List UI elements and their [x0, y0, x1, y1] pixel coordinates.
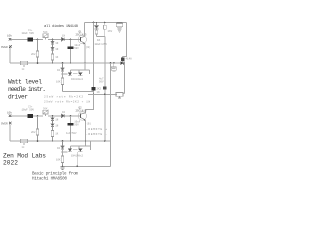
svg-text:-REMOTE +: -REMOTE + [86, 128, 107, 131]
svg-text:1uF/50V: 1uF/50V [66, 132, 77, 135]
svg-text:2SC1815: 2SC1815 [76, 34, 87, 37]
svg-text:1N: 1N [55, 48, 59, 51]
svg-text:16V: 16V [108, 30, 113, 33]
capacitor C3 input electrolytic [28, 114, 34, 118]
svg-text:driver: driver [8, 94, 28, 101]
svg-text:2K2: 2K2 [31, 131, 36, 134]
terminal IN R [9, 115, 11, 117]
wire bottom rail lower channel [10, 140, 111, 142]
svg-text:OVER: OVER [1, 46, 8, 49]
svg-text:50V: 50V [74, 124, 79, 127]
svg-text:10K: 10K [56, 81, 61, 84]
wire Q1 emitter down [84, 44, 86, 63]
svg-text:C1+: C1+ [28, 29, 33, 32]
svg-text:C3+: C3+ [28, 106, 33, 109]
svg-text:1k: 1k [22, 68, 26, 71]
svg-text:50V: 50V [74, 47, 79, 50]
svg-text:2022: 2022 [3, 160, 18, 167]
diode D13 on supply column [103, 86, 106, 89]
diode D14 series signal [62, 114, 65, 117]
diode D10 bridge right [78, 73, 82, 76]
wire C1 to node [33, 38, 43, 40]
wire node to loop lower [63, 149, 68, 156]
wire VR1 to D1 [48, 38, 62, 40]
diode D2 shunt [51, 39, 54, 44]
diode D7 supply feed [121, 58, 125, 61]
resistor box right top column [104, 23, 107, 37]
terminal OVER R [9, 122, 11, 124]
node C4 tap [70, 115, 72, 117]
svg-text:1N: 1N [62, 111, 66, 114]
node ground [62, 165, 64, 167]
svg-text:25mW rate Rb=2K2: 25mW rate Rb=2K2 [44, 95, 83, 99]
svg-text:1N: 1N [62, 34, 66, 37]
wire Q1 collector to rail [84, 23, 86, 37]
diode D9 bridge left [68, 73, 72, 76]
svg-text:(B): (B) [86, 46, 91, 49]
meter rectifier loop lower [71, 141, 91, 150]
svg-text:10k: 10k [7, 110, 12, 114]
diode D1 series signal [62, 38, 65, 41]
node D4 tap [62, 62, 64, 64]
svg-text:1N: 1N [55, 119, 59, 122]
wire joining top columns [97, 36, 105, 38]
resistor R9 [61, 156, 64, 166]
diode D17 below rail [61, 141, 64, 149]
wire lower collector link [85, 110, 87, 114]
diode D5 top column [95, 23, 99, 31]
wire input L [11, 38, 28, 40]
wire feeder column x93.5 [86, 23, 94, 110]
svg-text:4148: 4148 [126, 58, 133, 61]
svg-text:1K: 1K [55, 133, 59, 136]
capacitor C5 electrolytic on rail [116, 23, 122, 33]
capacitor C4 to rail [68, 116, 74, 141]
transistor Q2 [78, 112, 86, 121]
trimmer VR4 on rail [21, 139, 28, 145]
ground symbol [60, 166, 65, 169]
node R1 rail [37, 62, 39, 64]
node R8 rail [52, 140, 54, 142]
trimmer VR3 level [43, 110, 48, 116]
wire node to loop [63, 71, 68, 78]
wire right supply drop [123, 23, 127, 57]
wire return column x110.5 [110, 63, 112, 166]
node loop left [62, 73, 64, 75]
diode D18 bridge left [68, 149, 72, 152]
arrow meter output upper [121, 61, 124, 64]
wire D7 to meter node [122, 57, 124, 64]
node loop left lower [62, 151, 64, 153]
wire meter bus [88, 93, 117, 95]
diode D15 shunt [51, 116, 54, 121]
wire bottom rail upper channel [10, 62, 121, 64]
resistor Rtop under D5 [95, 30, 98, 36]
node shunt tap [52, 39, 54, 41]
svg-text:1N4148x2: 1N4148x2 [71, 78, 84, 81]
diode D16 shunt [51, 121, 54, 127]
svg-text:10uF 50V: 10uF 50V [22, 109, 35, 112]
wire Q2 emitter down [85, 120, 87, 146]
svg-text:1N: 1N [55, 125, 59, 128]
svg-text:10uF 50V: 10uF 50V [22, 32, 35, 35]
wire D14 to base [65, 115, 80, 117]
node D17 tap [62, 140, 64, 142]
wire OVER R down to rail [9, 124, 11, 141]
node R6 rail [37, 140, 39, 142]
svg-text:all diodes 1N4148: all diodes 1N4148 [44, 24, 79, 29]
wire ground return [63, 165, 111, 167]
resistor R8 shunt [51, 127, 54, 141]
svg-text:1N: 1N [57, 147, 61, 150]
trimmer D12 component [111, 63, 116, 72]
resistor R6 input bias [36, 116, 39, 141]
node right col rail [104, 22, 106, 24]
node shunt tap lower [52, 115, 54, 117]
bridge bar marks [68, 74, 83, 76]
bridge bar marks lower [68, 150, 83, 152]
terminal IN L [9, 38, 11, 40]
svg-text:1N: 1N [55, 42, 59, 45]
wire VR5 to supply node [123, 93, 125, 95]
node R3 rail [52, 62, 54, 64]
node supply meter bus [104, 93, 106, 95]
wire emitter into loop [84, 63, 86, 70]
transistor Q1 [78, 35, 86, 44]
svg-text:needle instr.: needle instr. [8, 86, 46, 93]
node emitter rail lower [85, 140, 87, 142]
node tail ground [76, 166, 78, 168]
node feeder meter bus [93, 93, 95, 95]
node C2 tap [70, 38, 72, 40]
meter rectifier loop upper [71, 70, 90, 74]
wire meter node down [124, 64, 126, 94]
node D12 rail [113, 62, 115, 64]
trimmer VR2 on rail [21, 61, 28, 67]
svg-text:10uF/25V: 10uF/25V [95, 42, 108, 46]
capacitor C2 to rail [68, 39, 74, 63]
svg-text:(B): (B) [87, 122, 92, 125]
resistor R4 [61, 78, 64, 92]
svg-text:Zen Mod Labs: Zen Mod Labs [3, 153, 46, 160]
node x110.5 rail [110, 62, 112, 64]
svg-text:Hitachi HMA8500: Hitachi HMA8500 [32, 177, 67, 182]
trimmer VR5 meter cal [116, 92, 123, 98]
resistor R1 input bias [36, 39, 39, 63]
wire R4 to meter bus [63, 91, 94, 93]
node supply col rail lower [104, 140, 106, 142]
wire input R [11, 115, 28, 117]
wire VR3 to D14 [48, 115, 62, 117]
svg-text:Watt level: Watt level [8, 79, 42, 86]
wire OVER L down to rail [9, 48, 11, 63]
svg-text:-REMOTE -: -REMOTE - [86, 133, 107, 136]
node emitter rail [84, 62, 86, 64]
svg-text:Basic principle from: Basic principle from [32, 172, 78, 177]
svg-text:25mW rate Rb=2K2 + 1W: 25mW rate Rb=2K2 + 1W [44, 100, 90, 104]
svg-text:OVER: OVER [1, 123, 8, 126]
svg-text:1N: 1N [97, 91, 101, 94]
wire long supply column x104.8 continues [104, 37, 106, 142]
svg-text:10K: 10K [56, 159, 61, 162]
svg-text:1N: 1N [57, 69, 61, 72]
terminal OVER L [9, 46, 11, 48]
svg-text:1K: 1K [97, 39, 101, 42]
resistor R3 shunt [51, 50, 54, 63]
diode D11 on feeder [92, 87, 96, 91]
trimmer VR1 level [43, 33, 48, 39]
svg-text:50V: 50V [99, 81, 104, 84]
wire top supply rail [85, 22, 127, 24]
node lower input [37, 115, 39, 117]
diode D19 bridge right [78, 149, 82, 152]
svg-text:1K: 1K [55, 56, 59, 59]
node top rail feeder [93, 22, 95, 24]
svg-text:1k: 1k [22, 146, 26, 149]
node C2 rail [70, 62, 72, 64]
node D5 rail [96, 22, 98, 24]
wire D1 to base [65, 38, 80, 40]
svg-text:10k: 10k [7, 34, 12, 38]
capacitor C1 input electrolytic [28, 37, 34, 41]
node upper input [37, 38, 39, 40]
diode D4 below rail [61, 63, 64, 71]
node C4 rail [70, 140, 72, 142]
svg-text:2K2: 2K2 [31, 53, 36, 56]
wire loop tail lower [76, 152, 78, 166]
wire C3 to node [33, 115, 43, 117]
diode D3 shunt [51, 44, 54, 50]
